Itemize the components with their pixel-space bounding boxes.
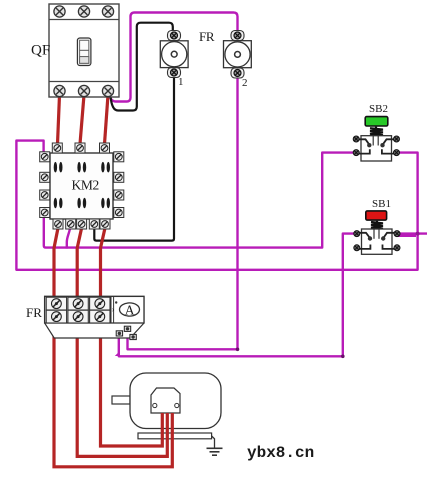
svg-text:SB2: SB2	[369, 103, 388, 115]
svg-text:2: 2	[242, 77, 248, 89]
svg-text:KM2: KM2	[72, 178, 99, 193]
svg-text:ybx8.cn: ybx8.cn	[247, 444, 314, 462]
svg-text:›: ›	[112, 305, 115, 314]
svg-text:FR: FR	[26, 305, 42, 320]
svg-text:A: A	[125, 302, 135, 317]
svg-text:SB1: SB1	[372, 198, 391, 210]
svg-text:QF: QF	[31, 43, 50, 59]
svg-text:FR: FR	[199, 29, 215, 44]
svg-text:1: 1	[178, 76, 184, 88]
